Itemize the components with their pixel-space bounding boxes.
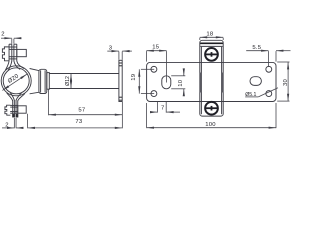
- top clamp left clip (speed nut): [2, 47, 9, 61]
- left view: pipe clamp ring outer circle: [1, 66, 31, 96]
- top clamping screw: [205, 48, 218, 61]
- bottom flare curves into ring: [7, 93, 25, 101]
- right view: mounting plate: [147, 62, 276, 101]
- svg-text:7: 7: [161, 106, 165, 112]
- svg-text:5.5: 5.5: [252, 45, 261, 51]
- flange bar (wall plate side view): [119, 60, 122, 101]
- top clamp right bolt head block: [17, 49, 27, 56]
- plate right oblong slot: [250, 77, 261, 86]
- top clamp bolt crossbars: [9, 47, 16, 59]
- svg-text:100: 100: [205, 122, 216, 128]
- svg-text:2: 2: [1, 32, 5, 38]
- bottom clamping screw: [205, 102, 218, 115]
- bracket inner side lines: [201, 47, 221, 114]
- svg-text:Ø12: Ø12: [65, 76, 71, 86]
- bottom clamp strips (band ends): [13, 100, 18, 117]
- svg-text:10: 10: [178, 79, 184, 86]
- bottom clamp left clip (speed nut): [5, 105, 10, 115]
- plate right hole bottom: [266, 91, 272, 97]
- svg-text:18: 18: [206, 32, 213, 38]
- plate right hole top: [266, 66, 272, 72]
- top flare curves into ring: [5, 61, 24, 71]
- bracket top fold dark band: [200, 42, 223, 44]
- flange bar holes (side view): [119, 63, 122, 100]
- washer bar between collar and rod: [47, 73, 50, 90]
- plate left hole top: [151, 66, 157, 72]
- rod (shaft): [49, 73, 119, 75]
- middle conductor holder bracket: [200, 40, 223, 116]
- svg-text:19: 19: [131, 74, 137, 81]
- svg-text:57: 57: [78, 108, 85, 114]
- plate left oblong slot: [162, 76, 171, 89]
- bottom strip end feet: [12, 114, 14, 117]
- collar (rod end loop): [39, 69, 47, 93]
- bracket side clamp ribs: [200, 73, 202, 93]
- svg-text:73: 73: [75, 119, 82, 125]
- top clamp strips (band ends): [9, 44, 17, 61]
- dimension Ø5.1 leader: [258, 88, 278, 97]
- neck from ring to collar: [30, 69, 40, 94]
- bottom clamp bolt crossbars: [10, 105, 18, 113]
- svg-text:3: 3: [109, 45, 113, 51]
- dimension Ø12: [70, 74, 72, 89]
- bracket top fold lower line: [200, 45, 222, 47]
- dimension Ø20 leader line: [2, 74, 27, 90]
- plate left hole bottom: [151, 91, 157, 97]
- bottom clamp right bolt head block: [18, 106, 26, 113]
- svg-text:15: 15: [152, 44, 159, 50]
- svg-text:2: 2: [5, 122, 9, 128]
- left view: pipe clamp ring inner circle: [3, 68, 29, 94]
